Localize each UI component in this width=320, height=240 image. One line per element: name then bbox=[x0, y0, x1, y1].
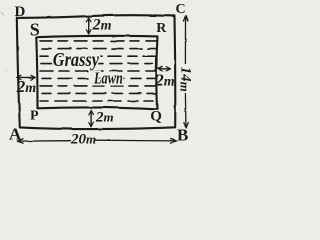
svg-text:A: A bbox=[9, 124, 22, 143]
svg-text:20m: 20m bbox=[70, 131, 96, 147]
svg-text:C: C bbox=[176, 2, 186, 17]
svg-text:14m: 14m bbox=[177, 67, 193, 92]
svg-text:2m: 2m bbox=[92, 17, 112, 34]
svg-text:D: D bbox=[15, 4, 26, 20]
svg-text:S: S bbox=[30, 19, 40, 39]
svg-text:R: R bbox=[156, 21, 167, 36]
svg-text:Lawn: Lawn bbox=[93, 70, 123, 88]
svg-text:Grassy: Grassy bbox=[53, 48, 100, 70]
svg-text:B: B bbox=[177, 125, 188, 144]
svg-text:P: P bbox=[30, 109, 39, 124]
svg-text:2m: 2m bbox=[95, 109, 114, 125]
svg-text:Q: Q bbox=[150, 108, 162, 124]
